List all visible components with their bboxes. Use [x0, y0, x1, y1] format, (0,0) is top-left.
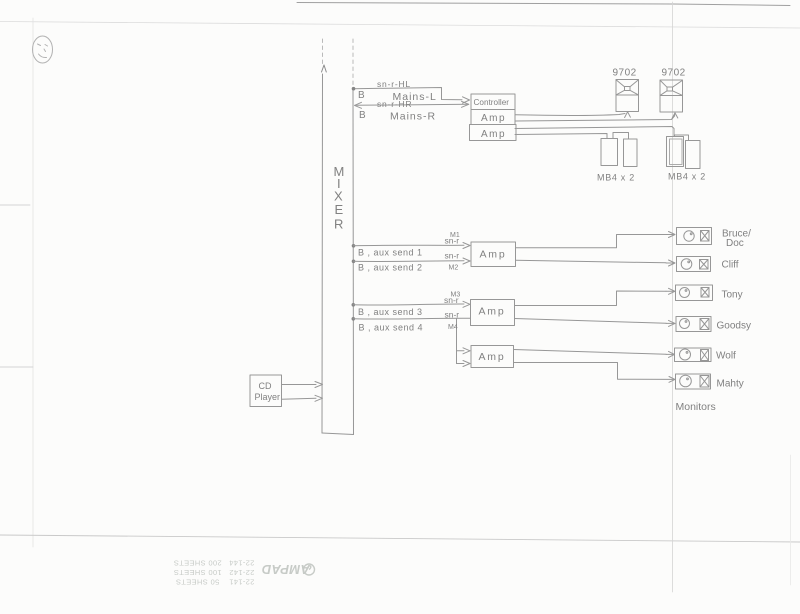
svg-text:Mains-R: Mains-R: [390, 111, 436, 123]
svg-text:Amp: Amp: [481, 113, 506, 124]
svg-text:M4: M4: [448, 324, 458, 331]
svg-text:Amp: Amp: [479, 306, 506, 318]
svg-text:sn-r: sn-r: [445, 236, 460, 246]
svg-text:sn-r: sn-r: [445, 251, 460, 261]
svg-text:E: E: [335, 202, 344, 217]
svg-text:R: R: [334, 217, 343, 232]
svg-text:9702: 9702: [613, 68, 637, 79]
svg-text:Monitors: Monitors: [676, 401, 716, 413]
svg-text:22-141 50 SHEETS: 22-141 50 SHEETS: [176, 577, 255, 586]
svg-text:Tony: Tony: [722, 290, 743, 301]
svg-text:Doc: Doc: [726, 238, 744, 249]
svg-text:B , aux send 2: B , aux send 2: [358, 263, 423, 273]
svg-text:B , aux send 4: B , aux send 4: [359, 323, 424, 333]
svg-text:Amp: Amp: [480, 249, 507, 261]
svg-text:MB4 x 2: MB4 x 2: [597, 173, 635, 183]
svg-text:CD: CD: [259, 381, 272, 391]
svg-text:Amp: Amp: [479, 351, 506, 363]
svg-text:B , aux send 1: B , aux send 1: [358, 248, 423, 258]
svg-text:Cliff: Cliff: [722, 260, 739, 271]
svg-text:9702: 9702: [662, 68, 686, 79]
svg-text:22-142 100 SHEETS: 22-142 100 SHEETS: [174, 568, 255, 577]
svg-text:B: B: [358, 90, 365, 101]
svg-text:sn-r: sn-r: [444, 295, 459, 305]
svg-text:B: B: [359, 110, 366, 121]
svg-text:sn-r-HR: sn-r-HR: [377, 99, 412, 109]
svg-text:M2: M2: [449, 265, 459, 272]
svg-text:Goodsy: Goodsy: [717, 321, 751, 332]
svg-text:Wolf: Wolf: [716, 351, 736, 362]
svg-text:Mahty: Mahty: [717, 379, 744, 390]
svg-text:B , aux send 3: B , aux send 3: [358, 307, 423, 317]
svg-text:Player: Player: [255, 392, 281, 402]
svg-text:Amp: Amp: [481, 129, 506, 140]
svg-text:sn-r-HL: sn-r-HL: [377, 79, 411, 89]
svg-text:22-144 200 SHEETS: 22-144 200 SHEETS: [174, 559, 255, 568]
svg-text:Controller: Controller: [474, 98, 510, 107]
svg-text:MB4 x 2: MB4 x 2: [668, 172, 706, 182]
svg-text:sn-r: sn-r: [445, 310, 460, 320]
